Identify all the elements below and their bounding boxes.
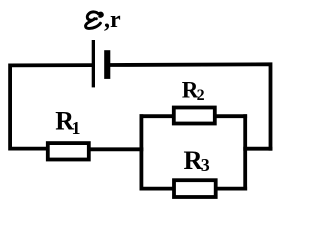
label E,r (script capital E drawn as path, comma and r as text) — [86, 7, 121, 33]
wire R3 branch left segment — [141, 187, 174, 191]
resistor R3 — [174, 180, 216, 197]
wire top-right from battery to right corner and down right side — [110, 64, 271, 148]
label R3 — [184, 145, 210, 175]
wire R3 branch right segment — [216, 187, 246, 191]
svg-text:,r: ,r — [104, 7, 121, 33]
wire parallel block left vertical — [139, 116, 143, 188]
battery cell E,r long plate — [92, 40, 95, 87]
label R2 — [182, 77, 205, 104]
wire R2 branch left segment — [141, 114, 173, 118]
wire R2 branch right segment — [215, 114, 245, 118]
resistor R1 — [48, 143, 89, 159]
svg-text:2: 2 — [197, 87, 205, 104]
battery cell E,r short plate — [104, 50, 110, 79]
svg-text:3: 3 — [201, 155, 210, 175]
resistor R2 — [174, 108, 215, 124]
wire top-left from battery to left corner and down left side to R1 branch — [10, 65, 92, 149]
wire from R1 right side to parallel block left node — [91, 147, 142, 151]
label R1 — [55, 107, 80, 139]
svg-text:1: 1 — [72, 118, 81, 138]
wire bottom-right connector from outer right wire to parallel block — [245, 147, 270, 151]
wire parallel block right vertical — [243, 116, 247, 188]
